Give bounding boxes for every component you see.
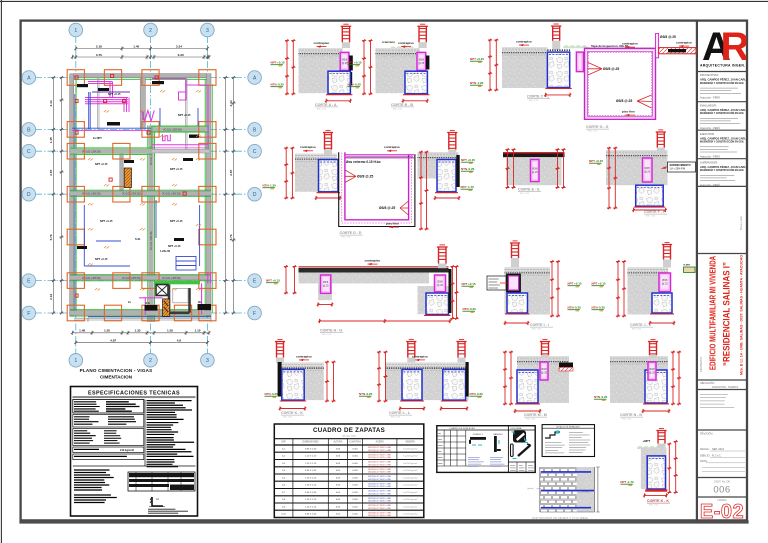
corte long right mass <box>418 286 449 314</box>
revision cell <box>700 431 745 472</box>
svg-text:+0.15: +0.15 <box>468 282 476 286</box>
svg-text:3: 3 <box>206 28 209 34</box>
vertical gray strip x186 <box>185 78 187 151</box>
svg-text:-1.20: -1.20 <box>269 184 276 188</box>
corte M-M mass <box>517 356 569 403</box>
corte G-G slab band <box>659 48 696 54</box>
svg-text:0.001: 0.001 <box>352 477 358 479</box>
svg-text:2s NPT: 2s NPT <box>93 136 102 140</box>
svg-text:CORTE G - G: CORTE G - G <box>586 125 609 129</box>
svg-text:UBICACIÓN:: UBICACIÓN: <box>700 382 715 385</box>
corte B-B ladder stem <box>419 42 427 48</box>
spec table left block 2 <box>73 415 144 428</box>
corte A-A column <box>340 52 349 70</box>
corte long level right 2 <box>463 307 477 312</box>
corte A-A ladder stem <box>342 42 350 48</box>
svg-text:(Columna): (Columna) <box>580 491 590 493</box>
row3 level labels mid 2 <box>592 282 606 287</box>
svg-text:NPT +0.15: NPT +0.15 <box>108 92 121 96</box>
svg-text:SEP. 2021: SEP. 2021 <box>712 447 725 451</box>
corte N-N right dims <box>671 351 675 405</box>
corte E-E caption <box>518 188 541 196</box>
corte J-J bottom dim <box>649 321 675 325</box>
doblez diagram 1 <box>470 434 486 445</box>
svg-text:0.001: 0.001 <box>352 463 358 465</box>
svg-text:Ayacucho - PERÚ: Ayacucho - PERÚ <box>700 184 720 187</box>
svg-text:3.44: 3.44 <box>49 100 53 106</box>
svg-text:1.35: 1.35 <box>134 329 140 333</box>
green room outline B-C right <box>152 127 208 151</box>
svg-text:NPT: NPT <box>568 282 574 286</box>
corte K-K ladder stem <box>276 358 284 363</box>
corte A-A text blob right <box>349 56 353 71</box>
svg-text:R: R <box>721 25 750 69</box>
svg-text:Ayacucho - PERÚ: Ayacucho - PERÚ <box>700 97 720 100</box>
corte L-L mass <box>386 362 469 400</box>
svg-text:Ø1/2@0.17 SUP. e INF.: Ø1/2@0.17 SUP. e INF. <box>368 479 391 481</box>
svg-text:Ø1/2@0.17 SUP. e INF.: Ø1/2@0.17 SUP. e INF. <box>368 464 391 466</box>
svg-text:Ayacucho - PERÚ: Ayacucho - PERÚ <box>700 127 720 130</box>
plan top wall band <box>70 74 211 80</box>
svg-text:1.48: 1.48 <box>79 329 85 333</box>
corte C-C ladder stem <box>552 41 560 50</box>
corte F-F bottom dim <box>632 208 666 212</box>
corte J-J caption <box>630 323 653 331</box>
horizontal beam band at C left <box>70 148 152 154</box>
corte N-N ladder stem <box>649 355 657 359</box>
svg-text:Ø1/2@0.17 SUP. e INF.: Ø1/2@0.17 SUP. e INF. <box>368 472 391 474</box>
corte A-A level label upper <box>271 61 285 66</box>
title block info cell 4 <box>700 160 750 187</box>
corte B-B rebar ladder <box>417 24 428 42</box>
svg-text:ESC. 1/25: ESC. 1/25 <box>649 505 659 507</box>
corte N-N level label <box>594 395 608 400</box>
svg-text:ESC. 1/25: ESC. 1/25 <box>393 108 403 110</box>
corte M-M side blob <box>559 363 573 372</box>
svg-text:CORTE J - J: CORTE J - J <box>630 323 651 327</box>
svg-text:NTN: NTN <box>263 184 269 188</box>
corte long level right 1 <box>462 282 476 287</box>
corte long right black bar <box>449 269 452 313</box>
svg-text:Øos extremo 0.15 H.bo: Øos extremo 0.15 H.bo <box>346 160 381 164</box>
svg-text:ESC. 1/25: ESC. 1/25 <box>529 100 539 102</box>
corte O-O ladder <box>656 428 666 443</box>
svg-text:CORTE E - E: CORTE E - E <box>518 188 540 192</box>
svg-text:ESC. 1/25: ESC. 1/25 <box>526 419 536 421</box>
svg-text:NPT +0.15: NPT +0.15 <box>178 113 191 117</box>
svg-text:2: 2 <box>149 28 152 34</box>
corte O-O bottom red line <box>645 490 667 492</box>
corte E-E slab band <box>503 152 565 157</box>
esquema bottom cells <box>508 462 535 472</box>
svg-text:-0.20: -0.20 <box>469 307 476 311</box>
svg-text:3.30: 3.30 <box>178 53 184 57</box>
grid bubble 1 bottom <box>69 354 83 368</box>
svg-text:contrapiso: contrapiso <box>676 41 692 45</box>
svg-text:piso fino: piso fino <box>622 110 635 114</box>
svg-text:CIMENTACION: CIMENTACION <box>100 375 133 380</box>
svg-text:+0.15: +0.15 <box>273 279 281 283</box>
corte L-L left dims <box>377 351 381 402</box>
corte long contrapiso <box>365 259 381 266</box>
svg-text:FECHA:: FECHA: <box>700 447 710 451</box>
corte I-I ladder <box>510 241 520 258</box>
svg-text:Ø3/8 @.25: Ø3/8 @.25 <box>616 99 632 103</box>
svg-text:VC-101 (.25X.50): VC-101 (.25X.50) <box>150 231 153 250</box>
corte G-G tank rebar dashes <box>589 52 652 115</box>
svg-text:D: D <box>27 192 31 198</box>
corte B-B grass <box>390 46 414 49</box>
corte M-M column strip <box>540 362 548 380</box>
svg-text:006: 006 <box>713 485 730 496</box>
corte O-O footing <box>645 456 667 490</box>
title block cell dividers <box>698 72 746 498</box>
corte B-B column <box>417 52 426 70</box>
corte C-C bottom dim <box>544 93 571 97</box>
svg-text:CUANTIAS: CUANTIAS <box>349 441 361 444</box>
outer paper border left <box>0 0 2 543</box>
plan room labels <box>93 92 191 304</box>
corte J-J ladder stem <box>663 260 671 268</box>
corte O-O right dims <box>667 443 671 494</box>
title block left edge <box>696 21 698 522</box>
corte G-G piso fino note <box>622 110 635 117</box>
corte D-D left ladder stem <box>324 150 332 156</box>
svg-text:F: F <box>253 311 256 317</box>
svg-text:NPT +0.15: NPT +0.15 <box>95 257 108 261</box>
cuadro data rows <box>281 447 418 517</box>
inner frame bottom thick edge <box>19 520 748 523</box>
svg-text:n.terr: n.terr <box>684 263 691 267</box>
corte K-K left bar <box>278 362 282 397</box>
spec table right column <box>147 401 195 467</box>
corte D-D left mass <box>295 154 337 192</box>
svg-text:AYACUCHO - HUANTA: AYACUCHO - HUANTA <box>712 386 738 389</box>
svg-text:NTN: NTN <box>271 83 277 87</box>
corte A-A contrapiso note <box>314 41 330 48</box>
svg-text:fc=210 kg/cm2: fc=210 kg/cm2 <box>403 470 418 472</box>
corte B-B level label lower <box>348 83 362 88</box>
corte N-N ladder <box>648 339 658 355</box>
svg-text:F: F <box>27 311 30 317</box>
corte G-G contrapiso top <box>622 42 638 49</box>
svg-text:ESC. 1/25: ESC. 1/25 <box>622 419 632 421</box>
corte D-D left level label <box>263 184 277 189</box>
corte B-B level label upper <box>348 61 362 66</box>
svg-text:+0.15: +0.15 <box>574 282 582 286</box>
svg-text:-0.20: -0.20 <box>366 392 373 396</box>
spec table left block 5 <box>73 454 144 460</box>
legend box frame <box>542 425 594 457</box>
outer paper border top <box>0 0 768 2</box>
doblez table header <box>437 426 535 473</box>
grid bubble B right <box>248 123 262 137</box>
grid bubble B left <box>22 123 36 137</box>
corte L-L bottom dim 2 <box>440 406 468 410</box>
svg-text:fc=210 kg/cm2: fc=210 kg/cm2 <box>403 448 418 450</box>
svg-text:NTN: NTN <box>265 392 271 396</box>
svg-text:“RESIDENCIAL SALINAS I”: “RESIDENCIAL SALINAS I” <box>722 262 732 366</box>
svg-text:piso fino: piso fino <box>386 222 399 226</box>
brick detail column <box>577 467 595 512</box>
corte B-B contrapiso note <box>398 41 414 48</box>
svg-text:ESC. 1/25: ESC. 1/25 <box>317 108 327 110</box>
corte F-F level labels left <box>589 159 603 164</box>
corte L-L right bar <box>466 362 469 397</box>
corte D-D U channel <box>339 152 415 226</box>
svg-text:0.001: 0.001 <box>352 499 358 501</box>
plan right wall band <box>205 74 212 317</box>
svg-text:ESC. 1/25: ESC. 1/25 <box>342 237 352 239</box>
corte C-C grass <box>563 45 588 48</box>
corte F-F caption <box>644 210 667 218</box>
corte I-I bottom dim <box>504 321 529 325</box>
corte M-M ladder stem <box>541 355 549 359</box>
svg-text:Ayacucho - PERÚ: Ayacucho - PERÚ <box>700 155 720 158</box>
corte J-J ladder <box>662 242 672 259</box>
corte K-K mass <box>282 362 324 400</box>
svg-text:Ø1/2@0.17 SUP. e INF.: Ø1/2@0.17 SUP. e INF. <box>368 450 391 452</box>
svg-text:VC-101 (.25X.50): VC-101 (.25X.50) <box>163 129 182 132</box>
corte C-C hatch strip above footing <box>547 49 570 51</box>
vertical beam band x121 <box>120 151 123 194</box>
title block info cell 3 <box>700 132 750 159</box>
svg-text:E: E <box>253 279 257 285</box>
svg-text:Ø1/2@0.17 SUP. e INF.: Ø1/2@0.17 SUP. e INF. <box>368 462 391 464</box>
grid bubble D left <box>22 187 36 201</box>
svg-text:Ø1/2@0.17 SUP. e INF.: Ø1/2@0.17 SUP. e INF. <box>368 469 391 471</box>
svg-text:CORTE K - K: CORTE K - K <box>647 499 669 503</box>
corte long left drop <box>318 283 332 300</box>
svg-text:+0.15: +0.15 <box>354 61 362 65</box>
svg-text:NOTA:: NOTA: <box>700 459 708 463</box>
corte J-J mass <box>628 267 669 314</box>
corte E-E level labels <box>461 158 475 163</box>
grid bubble 3 top <box>201 23 215 37</box>
corte D-D rebar note 2 <box>379 201 409 215</box>
corte E-E left dims <box>505 148 509 188</box>
corte D-D right black bar <box>456 155 459 187</box>
legend stair diagram <box>545 431 565 453</box>
plan bottom dimension chain 1 <box>71 331 211 335</box>
plan grid lines <box>35 36 249 354</box>
grid bubble F right <box>248 306 262 320</box>
svg-text:ESC. 1/25: ESC. 1/25 <box>520 193 530 195</box>
title block info cell 2 <box>700 103 750 130</box>
corte E-E right dims <box>555 148 559 188</box>
svg-text:contrapiso: contrapiso <box>314 41 330 45</box>
corte O-O caption <box>647 499 670 507</box>
svg-text:ESC. 1/25: ESC. 1/25 <box>646 216 656 218</box>
svg-text:SUPERVISOR:: SUPERVISOR: <box>700 160 718 164</box>
center hatched column <box>124 168 131 188</box>
svg-text:CORTE K - K: CORTE K - K <box>281 411 303 415</box>
svg-text:CORTE A - A: CORTE A - A <box>315 103 337 107</box>
doblez mini grid <box>437 430 509 466</box>
corte D-D caption <box>340 231 363 239</box>
svg-text:Ø1/2@0.17 SUP. e INF.: Ø1/2@0.17 SUP. e INF. <box>368 498 391 500</box>
svg-text:2b: 2b <box>198 300 202 304</box>
corte long level left <box>266 279 280 284</box>
magenta upper-right room outline <box>142 79 209 146</box>
svg-text:1.40: 1.40 <box>133 44 139 48</box>
svg-text:contrapiso: contrapiso <box>384 145 400 149</box>
plan right dimension chain inner <box>231 76 235 314</box>
svg-text:+0.15: +0.15 <box>477 57 485 61</box>
plan title <box>80 368 153 380</box>
svg-text:NPT: NPT <box>271 61 277 65</box>
svg-text:Ø1/2@0.17 SUP. e INF.: Ø1/2@0.17 SUP. e INF. <box>368 513 391 515</box>
grid bubble 3 bottom <box>201 354 215 368</box>
plan bottom dimension chain 2 <box>74 340 208 344</box>
corte L-L ladder 2 <box>456 339 466 357</box>
svg-text:Ø1/2@0.17 SUP. e INF.: Ø1/2@0.17 SUP. e INF. <box>368 457 391 459</box>
corte K-K dash overlay <box>282 367 324 369</box>
corte D-D contrapiso right <box>384 145 400 152</box>
svg-text:0.001: 0.001 <box>352 448 358 450</box>
svg-text:R.J.V.C.: R.J.V.C. <box>712 453 722 457</box>
svg-text:NPT: NPT <box>462 282 468 286</box>
grid bubble 2 top <box>144 23 158 37</box>
corte D-D left dims <box>284 147 288 199</box>
plan left wall band <box>70 74 76 317</box>
brick detail labels <box>527 487 590 493</box>
svg-text:DIMENSIONES: DIMENSIONES <box>303 442 320 444</box>
doblez diagram 2 <box>493 433 503 452</box>
svg-text:B: B <box>253 127 257 133</box>
corte G-G tank inner wall <box>588 51 653 116</box>
grid bubble 2 bottom <box>144 354 158 368</box>
corte long slab hatch band <box>299 268 449 284</box>
svg-text:NPT +0.15: NPT +0.15 <box>170 167 183 171</box>
corte L-L footing 1 <box>400 369 424 401</box>
corte A-A left dims <box>285 39 289 95</box>
corte B-B concrete mass <box>376 48 420 93</box>
legend box header <box>542 425 594 428</box>
spec table bottom-left lines <box>74 495 117 503</box>
svg-text:EDIFICIO MULTIFAMILIAR MI VIVI: EDIFICIO MULTIFAMILIAR MI VIVIENDA <box>708 256 718 370</box>
svg-text:-0.20: -0.20 <box>271 392 278 396</box>
corte B-B caption <box>391 103 414 111</box>
corte D-D right footing <box>435 160 458 193</box>
grid bubble D right <box>248 187 262 201</box>
svg-text:fc=210 kg/cm2: fc=210 kg/cm2 <box>403 492 418 494</box>
grid bubble A right <box>248 71 262 85</box>
corte A-A caption <box>315 103 338 111</box>
corte M-M footing <box>515 370 540 404</box>
orange footing outlines <box>67 70 216 321</box>
plan orange tick marks <box>88 90 201 291</box>
svg-text:Mza. B Lt. 14 - URB. SALINAS -: Mza. B Lt. 14 - URB. SALINAS - DIST. SAL… <box>740 255 744 375</box>
svg-text:1: 1 <box>74 28 77 34</box>
corte I-I annotation box <box>487 276 507 290</box>
lamina number cell <box>713 480 730 495</box>
svg-text:PROYECTISTA:: PROYECTISTA: <box>700 73 719 77</box>
corte I-I right dims <box>550 260 554 317</box>
svg-text:1.05: 1.05 <box>104 329 110 333</box>
svg-text:EJECUTOR:: EJECUTOR: <box>700 132 715 136</box>
corte J-J column <box>659 273 671 292</box>
corte long right dims <box>450 265 454 319</box>
svg-text:-0.20: -0.20 <box>601 395 608 399</box>
svg-text:0.001: 0.001 <box>352 492 358 494</box>
svg-text:A: A <box>27 75 31 81</box>
svg-text:contrapiso: contrapiso <box>622 42 638 46</box>
esquema icon square <box>512 431 528 443</box>
svg-text:NTN: NTN <box>463 307 469 311</box>
svg-text:CUADRO DE ZAPATAS: CUADRO DE ZAPATAS <box>313 427 385 434</box>
corte A-A level label lower <box>271 83 285 88</box>
svg-text:VC-101 (.25X.50): VC-101 (.25X.50) <box>122 277 141 280</box>
svg-text:Ø1/2@0.17 SUP. e INF.: Ø1/2@0.17 SUP. e INF. <box>368 455 391 457</box>
svg-text:3.44: 3.44 <box>229 100 233 106</box>
svg-text:-0.20: -0.20 <box>598 306 605 310</box>
svg-text:1.20x.60: 1.20x.60 <box>160 249 171 253</box>
svg-text:CORTE C - C: CORTE C - C <box>527 95 549 99</box>
spec table bottom caption <box>148 509 188 513</box>
svg-text:Ø1/2@0.17 SUP. e INF.: Ø1/2@0.17 SUP. e INF. <box>368 476 391 478</box>
corte L-L footing 2 <box>441 369 468 401</box>
svg-text:(junta): (junta) <box>527 487 534 490</box>
svg-text:NPT: NPT <box>592 282 598 286</box>
doblez table frame <box>437 426 535 473</box>
corte F-F annotation box <box>662 162 696 172</box>
corte F-F footing <box>634 185 666 207</box>
svg-text:ESC. 1/25: ESC. 1/25 <box>322 334 332 336</box>
spec table left block 3 <box>73 429 144 446</box>
corte K-K footing <box>280 369 306 401</box>
svg-text:0.80 X 1.60: 0.80 X 1.60 <box>305 470 317 472</box>
svg-text:Ø1/2@0.17 SUP. e INF.: Ø1/2@0.17 SUP. e INF. <box>368 447 391 449</box>
svg-text:CORTE N - N: CORTE N - N <box>620 413 642 417</box>
svg-text:Ø1/2@0.17 SUP. e INF.: Ø1/2@0.17 SUP. e INF. <box>368 501 391 503</box>
spec table anchor diagram <box>149 497 165 507</box>
plan top dimension chain partial <box>71 55 211 59</box>
svg-text:2.16: 2.16 <box>49 294 53 300</box>
svg-text:NPT: NPT <box>461 158 467 162</box>
corte K-K right dims <box>325 361 329 402</box>
svg-text:-1.70: -1.70 <box>467 185 474 189</box>
svg-text:5.76: 5.76 <box>229 234 233 240</box>
cuadro grid <box>274 452 424 510</box>
spec table divider <box>73 400 196 467</box>
svg-text:1: 1 <box>74 358 77 364</box>
corte F-F ladder stem <box>657 148 665 152</box>
stair green strip <box>155 281 200 284</box>
svg-text:-1.70: -1.70 <box>627 480 634 484</box>
svg-text:NTN: NTN <box>594 395 600 399</box>
corte I-I footing <box>505 293 530 314</box>
svg-text:@.25: @.25 <box>419 62 425 65</box>
svg-text:3.34: 3.34 <box>176 44 182 48</box>
svg-text:1.20 X 1.20: 1.20 X 1.20 <box>305 456 317 458</box>
corte K-K caption <box>281 411 304 419</box>
esquema icon bars <box>511 443 531 459</box>
corte F-F ladder <box>656 130 666 148</box>
horizontal beam band at F <box>70 310 211 316</box>
corte D-D left bottom dim <box>315 196 341 200</box>
grid bubble E right <box>248 274 262 288</box>
svg-text:Ø1/2@0.17 SUP. e INF.: Ø1/2@0.17 SUP. e INF. <box>368 508 391 510</box>
svg-text:PLANO CIMENTACION - VIGAS: PLANO CIMENTACION - VIGAS <box>80 368 153 373</box>
plan right dimension chain <box>223 76 227 314</box>
corte D-D left contrapiso <box>300 145 316 152</box>
corte long left column <box>321 275 331 293</box>
svg-text:contrapiso: contrapiso <box>296 354 312 358</box>
brick detail outline <box>540 467 600 512</box>
corte K-K level label <box>265 392 279 397</box>
svg-text:+NPT: +NPT <box>643 439 651 443</box>
